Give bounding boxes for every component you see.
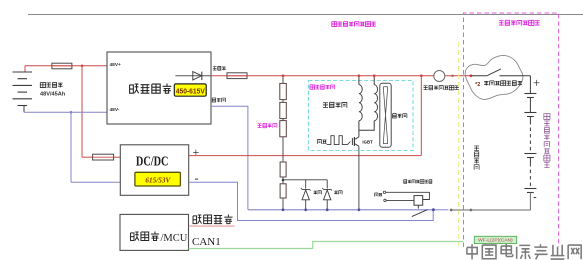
watermark China power industry net (467, 244, 477, 259)
label harmonic load box (310, 85, 315, 89)
wire fuel cell output- drop (211, 106, 248, 210)
node chain top (282, 74, 285, 77)
label radiator (393, 114, 397, 118)
relay K2 coil (414, 196, 423, 206)
label divider resistors (258, 124, 262, 128)
node bus tie (420, 74, 423, 77)
svg-text:CAN1: CAN1 (192, 236, 221, 248)
wire DC/DC - output (189, 182, 434, 220)
fuse F2 (93, 154, 114, 160)
zener diode D3 (322, 188, 332, 200)
resistor R2 (280, 102, 287, 118)
svg-text:615/53V: 615/53V (145, 176, 171, 185)
wire negative bus (248, 209, 433, 211)
svg-text:-: - (195, 171, 199, 185)
svg-text:450-615V: 450-615V (176, 87, 206, 96)
node inductor tap 1 (358, 74, 361, 77)
harmonic load enclosure (309, 81, 414, 151)
svg-text:-: - (533, 192, 536, 203)
resistor R1 (280, 83, 287, 99)
label bleed 1 (314, 191, 318, 194)
node bus junctions (282, 208, 285, 211)
zener diode D2 (301, 188, 311, 200)
label HV distribution box (vertical) (544, 114, 550, 120)
wire battery positive (25, 65, 107, 67)
label bleed 2 (334, 191, 338, 194)
wire to DC/DC input - (70, 112, 72, 182)
net label control assembly (193, 215, 202, 224)
svg-text:IGBT: IGBT (362, 140, 372, 145)
battery B1 (48V backup) (24, 66, 26, 72)
svg-text:WF-L(2P)(CAN): WF-L(2P)(CAN) (478, 238, 513, 243)
wire battery negative (24, 111, 107, 113)
label drive (relay) (375, 193, 378, 197)
EV boundary dashed box (464, 13, 559, 247)
resistor R5 (280, 184, 286, 198)
connector contacts bottom (450, 209, 453, 212)
svg-text:48V/45Ah: 48V/45Ah (40, 92, 66, 98)
transistor Q1 IGBT (351, 138, 353, 145)
label WF-L(2P)(CAN) (474, 236, 516, 243)
value label 450-615V (174, 84, 206, 96)
pin label output+ (213, 67, 217, 70)
node battery+ / DCDC tap (81, 65, 84, 68)
label EV interior (499, 21, 504, 25)
wire positive bus (211, 75, 471, 77)
svg-text:+: + (533, 76, 540, 90)
wire zener feed (283, 179, 327, 181)
wire battery return (gray) (451, 209, 530, 211)
wire to DC/DC input + (81, 66, 83, 157)
fuse F3 (227, 73, 247, 79)
label drive (IGBT) (317, 140, 321, 144)
label fuel cell electric structure (332, 22, 337, 27)
relay K1 outline (HV main relay) (465, 55, 523, 99)
battery B1 label (40, 82, 45, 87)
node battery- / DCDC tap (70, 111, 73, 114)
fuel cell U1 (107, 52, 211, 124)
label output contactor (404, 180, 407, 184)
svg-text:48V-: 48V- (110, 107, 120, 113)
fuse F1 (52, 63, 72, 69)
frame top border line (28, 14, 583, 16)
resistor R3 (280, 121, 287, 137)
radiator (380, 83, 391, 147)
label hall current sensor (424, 86, 428, 90)
wire Q1 emitter to bus (358, 146, 360, 210)
U1 label (fuel cell) (130, 84, 139, 93)
svg-text:/MCU: /MCU (161, 233, 188, 244)
resistor R4 (280, 162, 286, 177)
wire CAN bus (189, 242, 464, 249)
label charge port (474, 146, 479, 151)
wire resistor chain (282, 76, 284, 210)
charge port dashed line (458, 42, 460, 246)
diode D1 (175, 75, 211, 77)
svg-text:+: + (193, 145, 200, 159)
svg-text:*2: *2 (475, 82, 480, 88)
wire DC/DC + output (189, 155, 422, 157)
relay K2 switch blade (417, 205, 419, 208)
svg-text:48V+: 48V+ (110, 62, 122, 68)
node inductor tap 2 (373, 74, 376, 77)
pin label output- (212, 98, 215, 102)
inductor L1 (harmonic load) (358, 76, 360, 85)
DC/DC converter U2 (120, 145, 188, 196)
current sensor CT1 (434, 71, 445, 82)
U3 label (controller/MCU) (131, 232, 139, 240)
PWM waveform (327, 136, 351, 145)
svg-text:DC/DC: DC/DC (136, 154, 169, 169)
value label 615/53V (135, 172, 181, 186)
connector contacts on + bus (451, 75, 453, 77)
battery pack BT1 (529, 76, 531, 94)
relay K1 switch (471, 75, 487, 77)
controller U3 (120, 214, 189, 250)
node chain mid tap (282, 179, 285, 182)
label harmonic load (323, 103, 328, 108)
